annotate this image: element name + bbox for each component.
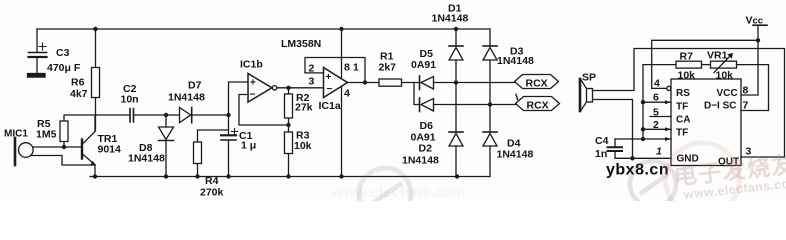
wire speaker bottom to ground <box>593 100 633 159</box>
wire Vcc to pin 8 <box>741 40 758 95</box>
diode D3 <box>483 29 497 105</box>
power terminal Vcc <box>753 25 767 40</box>
output tag RCX bottom <box>490 95 560 111</box>
svg-text:1: 1 <box>656 146 662 158</box>
wire bottom ground rail <box>90 176 490 178</box>
svg-text:5: 5 <box>653 107 659 119</box>
svg-text:R7: R7 <box>680 51 694 63</box>
svg-text:0A91: 0A91 <box>411 59 436 71</box>
svg-text:−: − <box>327 84 333 95</box>
capacitor C2 <box>96 109 167 123</box>
svg-text:+: + <box>250 78 256 89</box>
resistor R3 <box>285 125 293 177</box>
svg-text:2k7: 2k7 <box>379 62 397 74</box>
resistor R1 <box>379 79 419 86</box>
node R4 ground <box>195 174 199 178</box>
svg-text:C4: C4 <box>595 135 609 147</box>
node bus C4 <box>641 137 645 141</box>
svg-text:D7: D7 <box>188 80 202 92</box>
node R3 ground <box>286 174 290 178</box>
svg-text:1 μ: 1 μ <box>241 140 256 152</box>
microphone MIC1 <box>15 138 95 165</box>
resistor R4 <box>194 115 229 177</box>
svg-text:2: 2 <box>653 119 659 131</box>
node C1 ground <box>226 174 230 178</box>
node R6 top <box>93 27 97 31</box>
node IC1a out <box>363 80 367 84</box>
watermark grey swirl right <box>630 161 676 207</box>
svg-text:470μ F: 470μ F <box>47 62 81 74</box>
svg-text:4: 4 <box>344 88 350 100</box>
node D8 top <box>164 113 168 117</box>
node D2 ground <box>455 174 459 178</box>
pin 6 TF <box>643 100 671 104</box>
svg-text:SP: SP <box>582 72 596 84</box>
op-amp IC1b <box>229 74 324 126</box>
output tag RCX top <box>456 75 559 89</box>
node Vcc <box>756 38 760 42</box>
pin 5 CA <box>650 116 671 118</box>
node D1 D5 <box>454 80 458 84</box>
svg-text:6: 6 <box>653 92 659 104</box>
diode D8 <box>159 115 174 177</box>
node C4 ground <box>630 156 634 160</box>
pin 2 TF <box>643 127 671 131</box>
watermark grey swirl center <box>359 168 411 220</box>
wire ground to pin 1 <box>633 157 672 159</box>
svg-text:3: 3 <box>309 76 315 88</box>
svg-text:1N4148: 1N4148 <box>402 155 439 167</box>
wire Vcc to pin 4 reset <box>652 40 758 88</box>
svg-text:27k: 27k <box>295 102 313 114</box>
svg-text:10k: 10k <box>716 70 734 82</box>
node R2 R3 <box>286 123 290 127</box>
svg-text:D2: D2 <box>419 143 433 155</box>
node pin4 ground <box>339 174 343 178</box>
svg-text:8: 8 <box>344 62 350 74</box>
svg-text:8: 8 <box>743 85 749 97</box>
svg-text:D6: D6 <box>420 120 434 132</box>
svg-text:9014: 9014 <box>98 144 122 156</box>
svg-text:VR1: VR1 <box>707 50 728 62</box>
svg-text:4k7: 4k7 <box>70 88 88 100</box>
node bus pin2 <box>641 127 645 131</box>
transistor TR1 <box>64 115 95 177</box>
svg-text:TF: TF <box>676 128 688 139</box>
svg-text:D−I SC: D−I SC <box>704 101 737 112</box>
svg-text:LM358N: LM358N <box>281 38 321 50</box>
svg-text:1M5: 1M5 <box>36 129 57 141</box>
svg-text:1: 1 <box>353 62 359 74</box>
resistor R2 <box>285 88 293 125</box>
svg-text:IC1b: IC1b <box>240 59 263 71</box>
resistor R6 <box>92 29 100 131</box>
svg-text:R4: R4 <box>205 175 219 187</box>
node D3 D6 <box>488 102 492 106</box>
op-amp IC1a <box>305 29 379 177</box>
node C1 top <box>226 113 230 117</box>
capacitor C3 <box>28 29 47 77</box>
node bus pin6 <box>641 100 645 104</box>
resistor R5 <box>60 115 96 147</box>
svg-text:IC1a: IC1a <box>319 100 341 112</box>
svg-text:TF: TF <box>676 102 688 113</box>
svg-text:2: 2 <box>309 63 315 75</box>
diode D5 <box>420 76 457 90</box>
diode D4 <box>483 105 497 177</box>
svg-text:+: + <box>326 72 332 83</box>
svg-text:1n: 1n <box>595 148 607 160</box>
capacitor C1 <box>221 129 238 177</box>
svg-text:VCC: VCC <box>717 88 738 99</box>
node R5 base <box>62 145 66 149</box>
svg-text:7: 7 <box>743 100 749 112</box>
svg-text:RCX: RCX <box>526 78 548 90</box>
svg-text:1N4148: 1N4148 <box>432 13 469 25</box>
svg-text:1N4148: 1N4148 <box>128 153 165 165</box>
svg-text:10k: 10k <box>294 140 312 152</box>
node emitter ground <box>93 174 97 178</box>
svg-text:10k: 10k <box>678 70 696 82</box>
wire trigger bus <box>642 65 644 139</box>
node IC1b out <box>286 86 290 90</box>
node pin8 rail <box>339 27 343 31</box>
diode D1 <box>449 29 463 83</box>
svg-text:www.elecfans.com: www.elecfans.com <box>331 184 466 201</box>
svg-text:4: 4 <box>654 78 660 90</box>
capacitor C4 <box>608 137 672 158</box>
svg-text:1N4148: 1N4148 <box>168 92 205 104</box>
svg-text:1N4148: 1N4148 <box>497 55 534 67</box>
svg-text:10n: 10n <box>121 94 139 106</box>
wire speaker top to OUT loop <box>593 49 785 158</box>
svg-text:MIC1: MIC1 <box>4 129 28 140</box>
svg-text:1N4148: 1N4148 <box>497 149 534 161</box>
node D1 rail <box>454 27 458 31</box>
node D8 ground <box>164 174 168 178</box>
svg-text:CA: CA <box>676 115 690 126</box>
IC U1 555 body <box>671 79 741 166</box>
svg-text:−: − <box>250 90 256 101</box>
svg-text:RCX: RCX <box>527 100 549 112</box>
speaker SP <box>580 79 593 111</box>
svg-text:270k: 270k <box>200 187 224 199</box>
svg-text:C3: C3 <box>56 47 70 59</box>
svg-text:RS: RS <box>676 88 690 99</box>
diode D7 <box>166 108 229 123</box>
diode D2 <box>449 83 463 177</box>
diode D6 <box>414 83 490 112</box>
svg-text:R6: R6 <box>71 77 85 89</box>
stamp elecfans red <box>662 133 786 221</box>
svg-text:Vcc: Vcc <box>746 15 764 27</box>
wire top supply rail <box>37 28 490 30</box>
resistor R7 <box>643 61 711 68</box>
potentiometer VR1 <box>711 53 769 111</box>
pin 4 RS <box>652 86 671 90</box>
